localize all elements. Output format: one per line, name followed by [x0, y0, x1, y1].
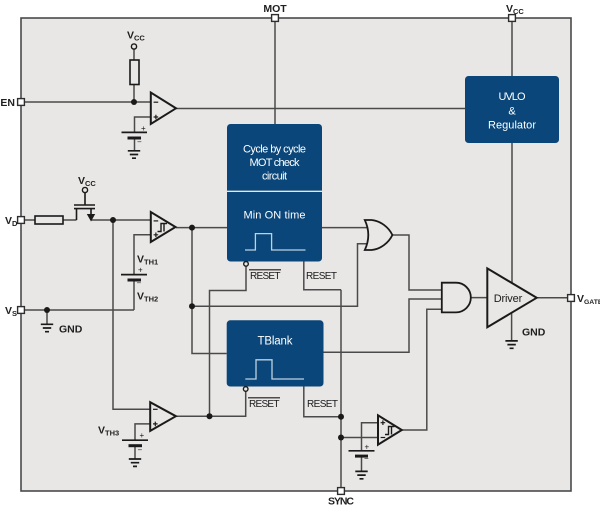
svg-text:+: + [140, 431, 145, 440]
svg-text:RESET: RESET [306, 271, 337, 282]
svg-text:−: − [364, 454, 369, 463]
svg-text:EN: EN [0, 97, 15, 109]
svg-text:RESET: RESET [249, 399, 280, 410]
svg-text:−: − [137, 138, 142, 147]
svg-text:Cycle by cycle: Cycle by cycle [243, 144, 306, 156]
svg-text:MOT: MOT [263, 3, 287, 15]
svg-text:GND: GND [522, 327, 546, 339]
svg-text:RESET: RESET [250, 271, 281, 282]
svg-text:RESET: RESET [307, 399, 338, 410]
svg-text:MOT check: MOT check [250, 157, 301, 169]
svg-text:UVLO: UVLO [499, 91, 526, 103]
svg-text:−: − [137, 279, 142, 288]
svg-text:Min ON time: Min ON time [244, 210, 306, 222]
svg-text:SYNC: SYNC [328, 496, 354, 508]
svg-text:−: − [138, 446, 143, 455]
svg-text:+: + [141, 124, 146, 133]
svg-text:&: & [508, 106, 516, 118]
svg-text:GND: GND [59, 324, 83, 336]
svg-text:circuit: circuit [262, 171, 287, 183]
svg-text:Driver: Driver [494, 293, 523, 305]
svg-text:TBlank: TBlank [258, 336, 293, 348]
svg-text:+: + [365, 443, 370, 452]
svg-text:+: + [138, 266, 143, 275]
svg-text:Regulator: Regulator [488, 120, 536, 132]
